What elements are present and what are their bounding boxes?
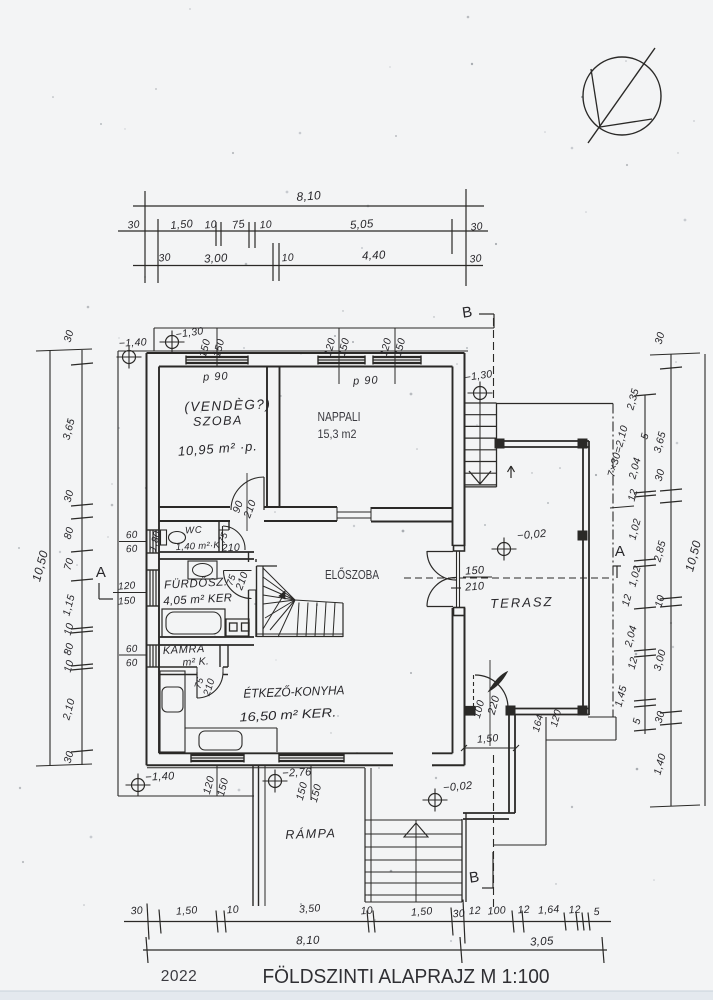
top dim tick col x452 bbox=[451, 219, 453, 254]
kitchen cooktop bbox=[199, 731, 242, 750]
bottom stairs right edge bbox=[461, 819, 463, 902]
svg-text:4,40: 4,40 bbox=[362, 249, 386, 262]
stair walk arrow bbox=[263, 596, 283, 629]
svg-text:FÖLDSZINTI ALAPRAJZ M 1:100: FÖLDSZINTI ALAPRAJZ M 1:100 bbox=[263, 966, 550, 988]
bottom dim line row1 bbox=[124, 921, 611, 923]
railing post NE bbox=[578, 439, 587, 448]
right wall outer face bbox=[464, 353, 466, 546]
wall south of rooms (left part) bbox=[159, 506, 230, 508]
entrance door jambs bbox=[454, 546, 465, 552]
left overall dim line 10,50 bbox=[49, 350, 51, 765]
terrace railing right bbox=[582, 441, 584, 715]
door bathroom arc 75/210 bbox=[224, 571, 252, 599]
benchmark -0,02 terrace bbox=[498, 543, 511, 556]
wc toilet bbox=[169, 532, 186, 544]
entrance double door arc upper bbox=[427, 551, 456, 580]
section bracket B top bbox=[479, 313, 494, 315]
svg-text:100: 100 bbox=[487, 904, 506, 917]
svg-text:1,40 m²·K: 1,40 m²·K bbox=[175, 540, 220, 553]
svg-text:NAPPALI: NAPPALI bbox=[318, 410, 361, 424]
terrace outer bottom corner bbox=[588, 716, 616, 718]
benchmark -1,40 bottom bbox=[132, 779, 145, 792]
top wall outer face bbox=[147, 352, 465, 354]
svg-text:1,50: 1,50 bbox=[176, 904, 198, 917]
svg-text:30: 30 bbox=[130, 905, 143, 918]
svg-text:1,50: 1,50 bbox=[411, 905, 433, 918]
svg-text:−1,40: −1,40 bbox=[119, 336, 148, 349]
svg-text:8,10: 8,10 bbox=[296, 935, 320, 948]
svg-text:2022: 2022 bbox=[161, 968, 197, 985]
svg-text:1,50: 1,50 bbox=[170, 218, 194, 232]
svg-text:RÁMPA: RÁMPA bbox=[285, 825, 337, 842]
ramp left wall bbox=[252, 765, 254, 906]
dim 60/60 kamra bbox=[119, 654, 147, 656]
right overall dim line 10,50 bbox=[704, 354, 706, 806]
svg-text:12: 12 bbox=[468, 905, 481, 918]
eaves outline left bbox=[117, 351, 119, 796]
section line B-B vertical bbox=[493, 318, 495, 400]
bottom wall outer face bbox=[147, 764, 394, 766]
top dim line 8,10 bbox=[133, 205, 484, 207]
left wall inner face bbox=[158, 367, 160, 754]
terrace door jamb bbox=[473, 675, 475, 712]
door vendeg-eloszoba arc 90/210 bbox=[231, 477, 264, 510]
leader line door vendeg bbox=[246, 473, 248, 531]
svg-text:WC: WC bbox=[185, 525, 203, 537]
bathroom right wall upper stub bbox=[248, 552, 250, 562]
dim 120/150 bath bbox=[113, 592, 147, 594]
pass-through sill nappali-eloszoba bbox=[337, 511, 371, 513]
svg-text:10: 10 bbox=[360, 905, 373, 918]
axis line window W3 bbox=[394, 328, 396, 384]
left wall WC vent 60/60 bbox=[147, 529, 159, 531]
entrance door closed leaf line bbox=[456, 551, 458, 607]
upper eaves line bbox=[154, 327, 494, 329]
svg-text:60: 60 bbox=[126, 644, 139, 656]
svg-text:60: 60 bbox=[126, 544, 139, 556]
top dim double tick a bbox=[215, 222, 217, 246]
benchmark -1,40 top-left bbox=[123, 351, 136, 364]
north symbol arrow line bbox=[588, 48, 655, 143]
top dim double tick b bbox=[248, 222, 250, 248]
svg-text:30: 30 bbox=[158, 251, 171, 264]
section bracket A left bbox=[98, 583, 100, 599]
kamra bottom wall bbox=[159, 666, 197, 668]
terrace door leaf bbox=[489, 672, 507, 691]
right chain 2 line bbox=[670, 354, 672, 806]
svg-text:A: A bbox=[96, 564, 106, 581]
svg-text:5,05: 5,05 bbox=[350, 218, 375, 232]
top dim tick col x466 bbox=[465, 189, 467, 286]
svg-text:(VENDÈG?): (VENDÈG?) bbox=[184, 396, 271, 414]
left wall outer face bbox=[146, 353, 148, 765]
bathroom right wall lower bbox=[248, 590, 250, 637]
north symbol circle bbox=[583, 57, 661, 135]
svg-text:8,10: 8,10 bbox=[296, 188, 321, 204]
terrace door arc 100/220 bbox=[475, 675, 508, 708]
svg-text:−0,02: −0,02 bbox=[517, 528, 547, 543]
railing post door bbox=[506, 706, 515, 715]
left wall bath window 120/150 bbox=[147, 569, 159, 571]
svg-text:210: 210 bbox=[220, 542, 240, 555]
window W1 (vendeg 150/150) bbox=[186, 356, 248, 358]
svg-text:−2,76: −2,76 bbox=[282, 766, 313, 780]
axis line window W1 bbox=[216, 328, 218, 367]
terrace outer top edge bbox=[496, 403, 613, 405]
bathroom bottom wall bbox=[159, 636, 254, 638]
wall south of rooms (right part) bbox=[371, 507, 453, 509]
bottom dim line row2 bbox=[143, 949, 607, 951]
kitchen left counter bbox=[160, 671, 185, 752]
wc bottom wall bbox=[159, 551, 254, 553]
svg-text:15,3 m2: 15,3 m2 bbox=[318, 427, 357, 441]
svg-text:10: 10 bbox=[259, 219, 272, 232]
north symbol chord 1 bbox=[591, 69, 600, 127]
svg-text:12: 12 bbox=[517, 904, 530, 917]
railing post E mid bbox=[578, 531, 587, 540]
benchmark -2,76 konyha bbox=[269, 775, 282, 788]
section line A-A right segment bbox=[404, 577, 613, 579]
interior staircase bbox=[256, 566, 258, 637]
window W2 (nappali 120/150) bbox=[318, 356, 365, 358]
dim 60/60 wc bbox=[119, 541, 147, 543]
terrace small up arrow bbox=[510, 466, 512, 478]
benchmark -1,30 right bbox=[474, 387, 487, 400]
railing post NW bbox=[495, 439, 504, 448]
door wc arc 75/210 bbox=[223, 526, 245, 550]
top dim tick col x145 bbox=[144, 191, 146, 283]
fraction line 150/210 bbox=[463, 576, 492, 578]
terrace garden step bbox=[546, 739, 616, 741]
svg-text:120: 120 bbox=[118, 580, 136, 592]
svg-text:30: 30 bbox=[469, 252, 482, 265]
eaves outline bottom (kitchen side) bbox=[118, 795, 254, 797]
ramp surface edge bbox=[264, 765, 266, 906]
terrace wall stub left of door bbox=[465, 707, 476, 716]
bottom wall footing line bbox=[147, 767, 365, 769]
porch south wall bbox=[463, 812, 515, 814]
svg-text:30: 30 bbox=[470, 220, 483, 233]
axis line window K1 bbox=[216, 765, 218, 796]
window W3 (nappali 120/150) bbox=[373, 356, 421, 358]
section bracket A right bbox=[613, 565, 621, 567]
svg-text:p 90: p 90 bbox=[202, 370, 229, 383]
terrace railing top bbox=[499, 440, 589, 442]
kamra right wall bbox=[219, 645, 221, 667]
svg-text:A: A bbox=[615, 543, 625, 560]
svg-text:TERASZ: TERASZ bbox=[490, 594, 554, 611]
svg-text:5: 5 bbox=[593, 906, 600, 918]
top dim double tick c bbox=[272, 243, 274, 281]
top dim tick col x158 bbox=[157, 219, 159, 283]
svg-text:1,64: 1,64 bbox=[538, 903, 560, 916]
scan bottom strip bbox=[0, 991, 713, 1000]
right chain 1 line bbox=[644, 395, 646, 734]
svg-text:150: 150 bbox=[465, 564, 486, 577]
svg-text:10: 10 bbox=[281, 252, 294, 265]
svg-text:p 90: p 90 bbox=[352, 374, 379, 387]
terrace railing bottom bbox=[513, 708, 589, 710]
svg-text:75: 75 bbox=[231, 218, 246, 232]
window K2 (konyha 150/150) bbox=[279, 754, 344, 756]
svg-text:10: 10 bbox=[204, 218, 217, 231]
partition vendeg-nappali bbox=[266, 366, 268, 507]
svg-text:30: 30 bbox=[452, 908, 465, 921]
dim 1,50 terrace door bbox=[464, 747, 516, 749]
eaves outline top bbox=[118, 350, 468, 352]
terrace door axis leader bbox=[489, 660, 491, 746]
eaves corner stub left bbox=[153, 328, 155, 351]
left wall kamra vent 60/60 bbox=[147, 644, 159, 646]
wall south of rooms (mid part) bbox=[264, 506, 337, 508]
bottom garden stairs bbox=[365, 819, 462, 821]
window K1 (konyha 120/150) bbox=[191, 754, 244, 756]
top dim line row3 bbox=[133, 265, 483, 267]
svg-text:60: 60 bbox=[126, 658, 139, 670]
outdoor stairs NE (down to garden) bbox=[465, 402, 497, 404]
bottom wall inner face bbox=[159, 752, 393, 754]
svg-text:1,50: 1,50 bbox=[477, 732, 499, 745]
wc right wall bbox=[218, 521, 220, 552]
svg-text:−1,40: −1,40 bbox=[145, 770, 176, 784]
svg-text:30: 30 bbox=[127, 218, 140, 231]
kitchen bottom counter bbox=[185, 727, 277, 729]
svg-text:ELŐSZOBA: ELŐSZOBA bbox=[325, 567, 380, 582]
terrace outer right edge bbox=[612, 404, 614, 718]
stair dim tick bbox=[610, 506, 634, 508]
svg-text:10: 10 bbox=[226, 904, 239, 917]
svg-text:m² K.: m² K. bbox=[182, 655, 209, 668]
entrance double door arc lower bbox=[427, 578, 456, 607]
porch east wall bbox=[508, 714, 510, 813]
axis line window K2 bbox=[310, 765, 312, 800]
bathtub bbox=[162, 609, 225, 637]
north symbol chord 2 bbox=[600, 119, 652, 127]
svg-text:SZOBA: SZOBA bbox=[193, 413, 243, 429]
left chain dim line bbox=[81, 350, 83, 765]
railing post SE bbox=[578, 706, 587, 715]
svg-text:3,50: 3,50 bbox=[299, 902, 321, 915]
kitchen fridge/sink bbox=[162, 687, 183, 712]
top wall inner face bbox=[159, 366, 453, 368]
axis line window W2 bbox=[338, 328, 340, 384]
benchmark -0,02 bottom bbox=[429, 794, 442, 807]
svg-text:150: 150 bbox=[118, 595, 136, 607]
svg-text:60: 60 bbox=[126, 530, 139, 542]
washing machines bbox=[226, 619, 249, 636]
right wall inner face bbox=[452, 367, 454, 547]
svg-text:210: 210 bbox=[464, 580, 486, 593]
svg-text:−0,02: −0,02 bbox=[443, 780, 473, 795]
svg-text:3,00: 3,00 bbox=[204, 252, 228, 265]
door kamra arc 75/210 bbox=[197, 672, 223, 698]
svg-text:3,05: 3,05 bbox=[530, 935, 554, 948]
top dim line row2 bbox=[118, 230, 488, 232]
benchmark -1,30 top bbox=[166, 336, 179, 349]
svg-text:12: 12 bbox=[568, 904, 581, 917]
bath sink bbox=[188, 561, 217, 579]
section bracket B bottom bbox=[492, 852, 494, 888]
